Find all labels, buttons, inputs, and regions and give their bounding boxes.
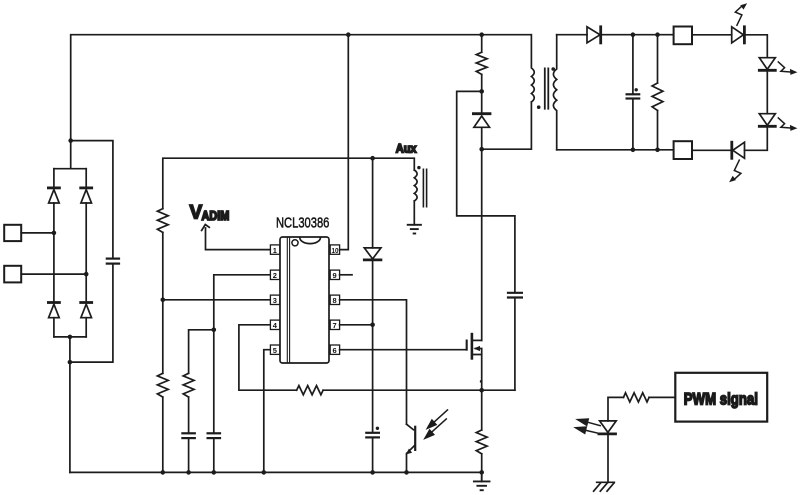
node comp c2 gnd [212,470,217,475]
LED2 light arrow [778,62,797,75]
pin box 5 [270,345,279,355]
pin box 7 [330,320,339,330]
node rload top [655,32,660,37]
Laux core [423,169,426,206]
wire divider mid [162,232,164,373]
svg-text:8: 8 [333,296,337,305]
svg-text:PWM signal: PWM signal [684,390,758,409]
Laux phase dot [417,166,420,169]
wire clamp cap loop [457,91,515,292]
node comp c1 gnd [186,470,191,475]
wire rload top seg [657,35,659,83]
svg-text:6: 6 [333,346,337,355]
node pin3 tap [161,298,166,303]
Q1 source lead [473,355,482,391]
node AC1 [52,231,57,236]
node pin10 rail [346,32,351,37]
wire snubber r top [481,35,483,53]
terminal out- [674,141,692,159]
stray dot [480,380,483,383]
pin box 6 [330,345,339,355]
wire AC2 [21,273,86,275]
wire pin1 Vadim arrow [206,228,271,250]
LED1 [732,27,745,43]
wire led4 to out- [692,149,732,151]
diode D4 bridge bottom-right [81,303,92,318]
transistor Q1 mosfet gate bar [466,341,468,350]
wire aux sense net [163,158,414,208]
wire vcc diode to cap [372,260,374,433]
wire pin6 gate [340,341,467,350]
capacitor Ccomp1 [182,433,194,438]
wire clamp cap bottom [514,298,516,391]
resistor Rpwm [624,393,650,402]
svg-text:4: 4 [273,321,278,330]
LED5 light arrow 1 [575,418,600,426]
wire pin3 [163,299,270,301]
wire cout [632,35,634,150]
wire AC1 [21,232,54,234]
node source sense [479,388,484,393]
Q2 light arrow 1 [426,410,448,430]
pin box 4 [270,320,279,330]
node pin7 vcc [370,323,375,328]
ground earth pwm [594,482,615,491]
node primary return [479,147,484,152]
wire vcc diode top [372,158,374,248]
T1 secondary phase dot [551,67,555,71]
diode D3 bridge bottom-left [48,303,59,318]
U1 pin1 dot [292,240,298,246]
svg-text:2: 2 [273,271,277,280]
wire sense top [481,390,483,430]
wire out bottom rail [557,149,674,151]
wire secondary top [557,34,587,36]
wire switch node [481,127,483,340]
resistor Rsnub [476,52,487,74]
wire bridge right column [85,169,87,337]
wire pin7 vcc node [340,324,373,326]
capacitor Cbulk [107,259,119,264]
node gnd end [479,470,484,475]
svg-text:10: 10 [332,246,339,255]
transistor Q2 optocoupler collector [407,424,414,430]
resistor Rload [652,83,663,110]
resistor Rcomp [183,373,194,397]
wire bottom ground rail [70,471,482,473]
transformer T1 primary winding [531,35,534,102]
Q2 emitter [407,446,415,473]
wire led3 to led4 [745,126,768,150]
svg-text:7: 7 [333,321,337,330]
node AC2 [84,272,89,277]
pin box 2 [270,270,279,280]
U1 notch [300,238,321,244]
op-amp U1 NCL30386 body [280,237,329,363]
ground main [474,472,490,490]
LED4 light arrow [729,160,741,182]
wire comp c1 gnd [188,438,190,472]
node opto emitter gnd [404,470,409,475]
wire comp c2 gnd [213,438,215,472]
LED5 light arrow 2 [573,426,599,434]
Q2 emitter arrowhead [406,449,412,455]
diode Dsnub [473,114,490,128]
node rload bottom [655,148,660,153]
terminal AC input 2 [4,266,21,283]
resistor Rsense [476,430,487,454]
diode D1 bridge top-left [48,188,59,203]
wire bulk cap bottom [70,264,113,363]
wire led2 to led3 [766,70,768,113]
U1 pin1 stripe [287,238,289,363]
node snubber clamp [479,89,484,94]
wire pin5 gnd [264,350,270,473]
node divider gnd [161,470,166,475]
transformer T1 secondary winding [553,35,556,150]
node vcc cap gnd [370,470,375,475]
node bridge top [68,138,73,143]
wire comp r to c [188,397,190,433]
wire bridge left column [53,169,55,337]
wire primary bottom [482,102,532,149]
wire vcc cap gnd [372,437,374,472]
wire pin4 to cs [239,325,515,390]
Q1 bulk arrow [476,349,482,355]
node bridge bottom [68,335,73,340]
wire top rail [71,35,531,141]
terminal AC input 1 [4,225,21,241]
wire pin8 to opto [340,300,407,424]
Cvcc polarity dot [376,427,379,430]
wire comp c2 [213,330,215,434]
Cout polarity dot [635,88,638,91]
svg-text:1: 1 [273,246,277,255]
svg-text:9: 9 [333,271,337,280]
diode Dvcc [364,248,381,260]
terminal out+ [674,27,692,45]
resistor Rcs [297,386,323,395]
svg-text:ADIM: ADIM [202,210,230,224]
LED3 light arrow [778,118,797,131]
wire snubber r bottom [481,74,483,113]
pin box 8 [330,295,339,305]
node pin2 branch split [212,328,217,333]
inductor Laux winding [414,170,417,201]
ground aux [408,225,421,234]
wire divider bottom [162,397,164,472]
svg-text:3: 3 [273,296,277,305]
pin box 1 [270,245,279,255]
svg-text:5: 5 [273,346,277,355]
Q1 drain lead [473,339,482,341]
diode Dout [587,27,601,43]
svg-text:Aux: Aux [396,143,417,155]
LED1 light arrow [735,3,747,25]
capacitor Cvcc [366,433,379,438]
capacitor Ccomp2 [208,433,220,438]
T1 primary phase dot [537,105,541,109]
LED4 [732,142,745,158]
wire comp rc top [189,330,214,374]
resistor Rzcd2 [157,373,168,397]
LED2 [759,58,775,71]
node snubber rail [479,32,484,37]
wire led5 gnd [607,434,609,482]
node pin5 gnd [262,470,267,475]
wire pwm resistor net [608,397,675,421]
diode LED5 opto emitter diode [599,421,616,434]
wire pin9 stub [340,274,352,276]
node aux tap [370,156,375,161]
node cout top [631,32,636,37]
capacitor Cout [627,94,640,98]
wire bridge top bar [54,141,86,169]
wire rload bottom seg [657,111,659,150]
node cout bottom [631,148,636,153]
Q1 channel bar [471,334,474,358]
wire aux gnd [413,201,415,225]
PWM signal box [675,373,767,422]
wire bulk cap branch [71,141,113,259]
pin box 10 [330,245,339,255]
T1 core [545,68,549,108]
pin box 9 [330,270,339,280]
wire out top rail [601,34,674,36]
wire led string right top [744,35,767,58]
capacitor Cclamp [508,293,522,298]
pin box 3 [270,295,279,305]
svg-text:V: V [190,203,203,224]
node bulk cap return [68,360,73,365]
wire sense bottom [481,454,483,473]
wire pin2 branch [214,275,270,330]
LED3 [759,114,775,127]
Q2 base bar [414,427,416,450]
svg-text:NCL30386: NCL30386 [276,214,329,231]
wire to led string top [692,34,732,36]
Q2 light arrow 2 [423,419,446,440]
wire bridge bottom bar [54,337,86,473]
wire pin10 vcc [340,35,349,250]
resistor Rzcd1 [157,209,168,233]
diode D2 bridge top-right [81,188,92,203]
